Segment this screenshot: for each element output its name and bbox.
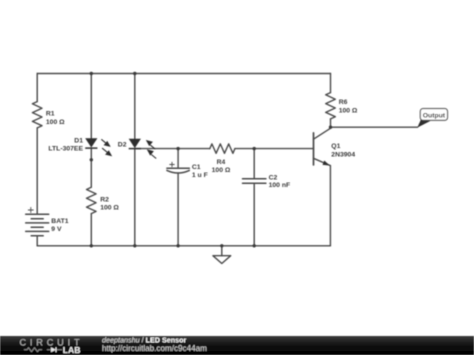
svg-text:BAT1: BAT1	[51, 218, 68, 225]
wire D2 cathode to bottom rail	[134, 149, 136, 246]
wire D1 cathode to R2	[90, 148, 92, 187]
wire R1 to battery	[36, 128, 38, 214]
svg-text:Output: Output	[423, 112, 446, 119]
node dot below D1	[90, 158, 93, 161]
LED D1 emitted-light arrows	[101, 139, 111, 155]
footer bar	[0, 335, 474, 355]
node dot bottom rail at C2	[253, 244, 256, 247]
svg-text:Q1: Q1	[331, 143, 340, 150]
wire top rail to D1 anode	[90, 74, 92, 139]
node dot C1 top	[176, 147, 179, 150]
svg-text:1 u F: 1 u F	[192, 172, 208, 179]
wire battery to bottom rail	[36, 236, 38, 246]
svg-text:100 nF: 100 nF	[269, 182, 291, 189]
node dot top rail at D2	[133, 72, 136, 75]
wire Q1 collector node to output flag	[331, 126, 418, 128]
wire left rail upper (top rail to R1)	[36, 74, 38, 102]
wire R2 to bottom rail	[90, 214, 92, 246]
capacitor C1	[167, 149, 189, 246]
svg-text:100 Ω: 100 Ω	[212, 167, 231, 174]
output flag	[417, 109, 447, 128]
LED D2	[129, 139, 141, 149]
ground	[213, 246, 231, 264]
svg-text:9 V: 9 V	[51, 226, 62, 233]
resistor R1	[32, 102, 42, 128]
footer logo diode	[51, 347, 56, 352]
wire bottom rail	[37, 245, 330, 247]
node dot bottom rail at D2	[133, 244, 136, 247]
svg-text:C1: C1	[192, 164, 201, 171]
svg-text:D2: D2	[118, 141, 127, 148]
node dot R6 collector output	[329, 126, 332, 129]
node dot C2 top	[253, 147, 256, 150]
svg-text:http://circuitlab.com/c9c44am: http://circuitlab.com/c9c44am	[102, 344, 207, 353]
svg-text:R4: R4	[217, 159, 226, 166]
svg-text:100 Ω: 100 Ω	[339, 107, 358, 114]
svg-text:R6: R6	[339, 99, 348, 106]
svg-text:LTL-307EE: LTL-307EE	[48, 145, 83, 152]
svg-text:deeptanshu / LED Sensor: deeptanshu / LED Sensor	[102, 335, 187, 344]
LED D1	[85, 138, 97, 148]
battery BAT1	[26, 208, 49, 236]
svg-text:100 Ω: 100 Ω	[100, 204, 119, 211]
svg-text:100 Ω: 100 Ω	[46, 119, 65, 126]
svg-text:LAB: LAB	[63, 345, 81, 355]
svg-text:R1: R1	[46, 110, 55, 117]
node dot bottom rail at R2	[90, 244, 93, 247]
svg-text:C2: C2	[269, 174, 278, 181]
footer logo squiggle	[24, 348, 62, 352]
svg-text:R2: R2	[100, 197, 109, 204]
node dot top rail at D1	[90, 72, 93, 75]
capacitor C2	[243, 149, 266, 246]
resistor R4	[210, 144, 235, 153]
svg-text:2N3904: 2N3904	[331, 151, 355, 158]
LED D2 incoming-light arrows	[147, 141, 156, 159]
resistor R2	[87, 187, 97, 213]
wire top rail to D2 anode	[134, 74, 136, 139]
node dot bottom rail at ground	[220, 244, 223, 247]
wire top rail	[37, 73, 330, 75]
node dot bottom rail at C1	[176, 244, 179, 247]
wire R4 to Q1 base	[235, 148, 314, 150]
transistor Q1 emitter arrowhead	[323, 161, 330, 166]
transistor Q1	[314, 127, 331, 246]
svg-text:D1: D1	[74, 137, 83, 144]
wire D2 cathode to R4	[135, 148, 210, 150]
resistor R6	[326, 74, 336, 128]
